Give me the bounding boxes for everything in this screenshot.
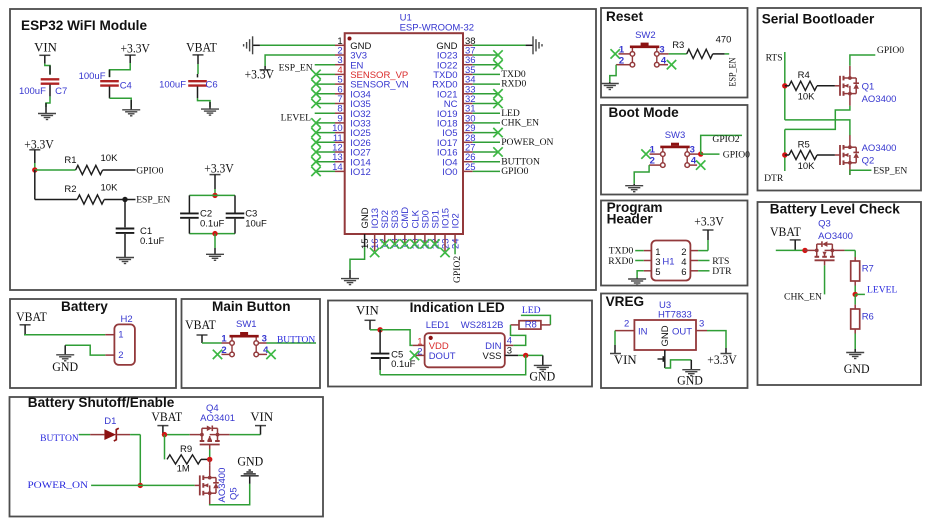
svg-text:DTR: DTR (712, 266, 732, 277)
svg-text:AO3400: AO3400 (862, 94, 897, 105)
svg-text:R9: R9 (180, 444, 192, 455)
svg-text:GPIO0: GPIO0 (136, 165, 163, 176)
svg-text:10K: 10K (101, 183, 119, 194)
svg-text:0.1uF: 0.1uF (200, 219, 224, 230)
svg-text:VSS: VSS (482, 351, 501, 362)
svg-text:10K: 10K (798, 92, 816, 103)
svg-text:10uF: 10uF (245, 219, 267, 230)
svg-text:AO3400: AO3400 (217, 468, 228, 503)
svg-text:POWER_ON: POWER_ON (501, 137, 553, 148)
svg-text:GPIO2: GPIO2 (452, 256, 463, 283)
svg-text:VBAT: VBAT (186, 40, 217, 54)
svg-text:ESP_EN: ESP_EN (727, 57, 738, 86)
svg-text:SW1: SW1 (236, 319, 257, 330)
svg-text:RTS: RTS (766, 53, 783, 64)
svg-text:AO3400: AO3400 (818, 231, 853, 242)
svg-text:TXD0: TXD0 (609, 246, 634, 257)
svg-text:GPIO0: GPIO0 (501, 166, 528, 177)
svg-text:1: 1 (221, 334, 227, 345)
svg-text:IO12: IO12 (350, 167, 371, 178)
svg-text:GND: GND (844, 362, 870, 376)
svg-text:2: 2 (118, 350, 123, 361)
svg-text:IO2: IO2 (450, 213, 461, 228)
svg-text:ESP_EN: ESP_EN (873, 165, 907, 176)
svg-text:10K: 10K (798, 161, 816, 172)
svg-text:R3: R3 (672, 40, 684, 51)
svg-text:SW2: SW2 (635, 30, 656, 41)
svg-text:LED: LED (522, 305, 541, 316)
svg-text:Battery Level Check: Battery Level Check (770, 202, 900, 217)
svg-text:IN: IN (638, 327, 648, 338)
svg-text:CHK_EN: CHK_EN (501, 118, 539, 129)
svg-text:Q3: Q3 (818, 219, 831, 230)
svg-text:R4: R4 (798, 70, 810, 81)
svg-text:H2: H2 (121, 314, 133, 325)
svg-text:DTR: DTR (764, 173, 784, 184)
svg-text:GND: GND (529, 370, 555, 384)
svg-text:LEVEL: LEVEL (281, 112, 312, 123)
svg-text:Boot Mode: Boot Mode (609, 105, 680, 120)
svg-text:DOUT: DOUT (429, 351, 456, 362)
svg-text:Reset: Reset (606, 9, 643, 24)
svg-text:GND: GND (677, 374, 703, 388)
svg-text:AO3400: AO3400 (862, 143, 897, 154)
svg-text:100uF: 100uF (159, 80, 186, 91)
svg-text:+3.3V: +3.3V (245, 68, 275, 82)
svg-text:CHK_EN: CHK_EN (784, 292, 822, 303)
svg-text:GND: GND (660, 325, 671, 346)
svg-text:VBAT: VBAT (151, 410, 182, 424)
svg-text:6: 6 (681, 267, 686, 278)
svg-text:VIN: VIN (356, 304, 379, 318)
svg-text:ESP32 WiFI Module: ESP32 WiFI Module (21, 18, 147, 33)
svg-text:VBAT: VBAT (770, 225, 801, 239)
svg-text:OUT: OUT (672, 327, 692, 338)
svg-text:C6: C6 (206, 80, 218, 91)
svg-text:GND: GND (52, 360, 78, 374)
svg-text:Q1: Q1 (862, 81, 875, 92)
svg-text:1: 1 (118, 330, 123, 341)
svg-text:Battery Shutoff/Enable: Battery Shutoff/Enable (28, 395, 175, 410)
svg-text:R5: R5 (798, 139, 810, 150)
svg-text:100uF: 100uF (19, 86, 46, 97)
svg-text:+3.3V: +3.3V (694, 214, 724, 228)
svg-text:1: 1 (619, 44, 625, 55)
svg-text:GPIO2: GPIO2 (712, 134, 739, 145)
svg-text:Main Button: Main Button (212, 299, 291, 314)
svg-text:VREG: VREG (606, 294, 645, 309)
svg-text:Header: Header (607, 212, 654, 227)
svg-text:+3.3V: +3.3V (121, 42, 151, 56)
svg-text:C7: C7 (55, 86, 67, 97)
svg-text:GPIO0: GPIO0 (877, 45, 904, 56)
svg-text:R8: R8 (525, 320, 537, 331)
svg-text:LEVEL: LEVEL (867, 284, 898, 295)
svg-text:R1: R1 (64, 155, 76, 166)
svg-text:1: 1 (650, 145, 656, 156)
svg-text:BUTTON: BUTTON (277, 334, 315, 345)
svg-text:0.1uF: 0.1uF (391, 359, 415, 370)
svg-text:VBAT: VBAT (16, 310, 47, 324)
svg-text:C4: C4 (120, 81, 132, 92)
svg-text:R6: R6 (862, 312, 874, 323)
svg-text:10K: 10K (101, 153, 119, 164)
svg-text:VIN: VIN (34, 40, 57, 54)
svg-text:GND: GND (237, 455, 263, 469)
svg-text:Battery: Battery (61, 299, 108, 314)
svg-text:VBAT: VBAT (185, 318, 216, 332)
svg-text:BUTTON: BUTTON (40, 433, 79, 444)
svg-text:POWER_ON: POWER_ON (28, 480, 89, 491)
svg-text:ESP_EN: ESP_EN (279, 62, 313, 73)
svg-text:1M: 1M (177, 463, 190, 474)
svg-text:+3.3V: +3.3V (707, 353, 737, 367)
svg-text:24: 24 (450, 238, 461, 249)
svg-text:D1: D1 (104, 416, 116, 427)
svg-text:VIN: VIN (614, 353, 637, 367)
svg-text:0.1uF: 0.1uF (140, 236, 164, 247)
svg-text:AO3401: AO3401 (200, 413, 235, 424)
svg-text:Serial Bootloader: Serial Bootloader (762, 12, 875, 27)
svg-text:HT7833: HT7833 (658, 310, 692, 321)
svg-text:+3.3V: +3.3V (204, 162, 234, 176)
svg-text:ESP-WROOM-32: ESP-WROOM-32 (400, 23, 474, 34)
svg-text:470: 470 (716, 35, 732, 46)
svg-text:100uF: 100uF (79, 71, 106, 82)
svg-text:SW3: SW3 (665, 130, 686, 141)
svg-text:R7: R7 (862, 263, 874, 274)
svg-text:RXD0: RXD0 (608, 256, 633, 267)
svg-text:Indication LED: Indication LED (410, 300, 505, 315)
svg-text:3: 3 (699, 319, 704, 330)
svg-text:2: 2 (624, 319, 629, 330)
svg-text:WS2812B: WS2812B (461, 320, 504, 331)
svg-text:RXD0: RXD0 (501, 79, 526, 90)
svg-text:R2: R2 (64, 184, 76, 195)
svg-text:H1: H1 (662, 256, 674, 267)
svg-text:Q5: Q5 (229, 487, 240, 500)
svg-text:LED1: LED1 (426, 320, 450, 331)
svg-text:VIN: VIN (250, 410, 273, 424)
svg-text:5: 5 (655, 267, 660, 278)
svg-text:GPIO0: GPIO0 (723, 149, 750, 160)
svg-text:IO0: IO0 (442, 167, 457, 178)
svg-text:ESP_EN: ESP_EN (136, 195, 170, 206)
